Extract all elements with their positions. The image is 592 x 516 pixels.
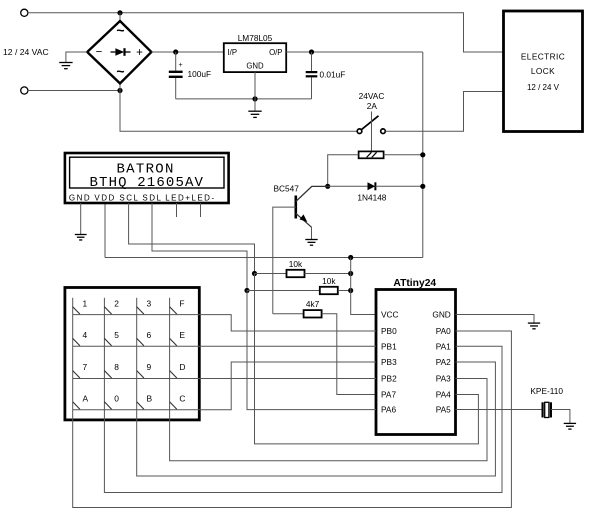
wire bridge top stub — [119, 13, 121, 21]
svg-text:PA6: PA6 — [381, 405, 396, 415]
wire keypad col1 to PA0 — [73, 298, 512, 508]
capacitor C2 0.01uF — [306, 52, 318, 99]
terminal J1 (AC input top) — [21, 9, 28, 16]
svg-text:−: − — [96, 47, 103, 59]
svg-text:BC547: BC547 — [274, 183, 300, 193]
wire SDL — [152, 203, 247, 291]
wire relay right to +V — [384, 154, 423, 156]
svg-text:LOCK: LOCK — [531, 66, 555, 76]
node relay right — [420, 152, 425, 157]
wire SCL to PA4 — [255, 274, 479, 444]
svg-text:PB2: PB2 — [381, 374, 397, 384]
wire keypad row3 to PB2 — [73, 378, 376, 380]
key E — [170, 330, 186, 346]
svg-text:12 / 24 VAC: 12 / 24 VAC — [3, 47, 49, 57]
svg-text:1: 1 — [83, 298, 88, 308]
wire R3 left — [273, 313, 304, 315]
ground (ATtiny24) — [528, 323, 540, 329]
svg-text:PA1: PA1 — [436, 341, 451, 351]
svg-text:VCC: VCC — [381, 310, 399, 320]
svg-text:LED+: LED+ — [165, 194, 191, 203]
wire R2 left — [247, 290, 320, 292]
wire base — [273, 207, 296, 314]
svg-text:PA4: PA4 — [436, 390, 451, 400]
relay coil K1 — [359, 151, 384, 158]
svg-text:1N4148: 1N4148 — [357, 193, 386, 203]
key 8 — [104, 362, 119, 378]
node AC top / bridge — [117, 10, 122, 15]
svg-text:0: 0 — [114, 393, 119, 403]
svg-text:4: 4 — [83, 330, 88, 340]
wire +V rail to VCC — [351, 258, 376, 315]
svg-text:E: E — [179, 330, 185, 340]
svg-text:KPE-110: KPE-110 — [530, 386, 563, 396]
svg-text:GND: GND — [246, 61, 264, 70]
ground (bridge) — [59, 63, 72, 69]
svg-text:SDL: SDL — [142, 194, 162, 203]
wire ground stub — [254, 99, 256, 111]
node SDL / R2 — [244, 288, 249, 293]
wire LCD GND stub — [80, 203, 82, 234]
svg-text:2A: 2A — [367, 101, 378, 111]
svg-text:PA3: PA3 — [436, 374, 451, 384]
svg-text:D: D — [179, 362, 185, 372]
electric lock — [504, 11, 583, 132]
svg-text:PB1: PB1 — [381, 341, 397, 351]
wire AC-bottom — [28, 90, 120, 92]
svg-text:2: 2 — [114, 298, 119, 308]
svg-text:I/P: I/P — [228, 48, 238, 57]
svg-text:~: ~ — [116, 63, 124, 79]
svg-text:10k: 10k — [322, 276, 336, 286]
svg-text:GND: GND — [432, 310, 450, 320]
node relay left / diode anode — [325, 184, 330, 189]
wire R2 right — [338, 290, 351, 292]
svg-text:12 / 24 V: 12 / 24 V — [527, 83, 560, 92]
ground (buzzer) — [564, 423, 576, 429]
key 0 — [104, 393, 119, 409]
svg-text:SCL: SCL — [119, 194, 139, 203]
svg-text:B: B — [147, 393, 153, 403]
svg-text:0.01uF: 0.01uF — [320, 70, 346, 80]
svg-text:PA2: PA2 — [436, 357, 451, 367]
svg-text:GND: GND — [69, 194, 91, 203]
node R2 / +V — [348, 288, 353, 293]
resistor R3 4k7 — [304, 310, 322, 317]
wire keypad col2 to PA1 — [104, 298, 502, 493]
wire R1 right — [305, 273, 351, 275]
wire switch to electric lock — [385, 92, 503, 132]
svg-text:7: 7 — [83, 362, 88, 372]
svg-text:LM78L05: LM78L05 — [238, 33, 273, 43]
key 5 — [104, 330, 119, 346]
wire buzzer to ground — [551, 410, 570, 424]
key D — [170, 362, 186, 378]
node diode cathode / +V — [420, 184, 425, 189]
bridge rectifier BR1 — [87, 21, 151, 83]
svg-text:A: A — [83, 393, 89, 403]
svg-text:3: 3 — [147, 298, 152, 308]
wire bridge right to regulator I/P — [151, 51, 223, 53]
wire R1 left — [255, 273, 287, 275]
wire ground rail — [176, 98, 312, 100]
svg-text:6: 6 — [147, 330, 152, 340]
wire +V rail to VDD — [105, 257, 423, 259]
key 1 — [73, 298, 88, 314]
wire AC-top to electric lock — [28, 13, 504, 52]
key 7 — [73, 362, 88, 378]
wire relay link — [371, 112, 373, 152]
svg-text:PA0: PA0 — [436, 326, 451, 336]
svg-text:9: 9 — [147, 362, 152, 372]
key 2 — [104, 298, 119, 314]
switch S1 contact left — [357, 129, 362, 134]
key 4 — [73, 330, 88, 346]
svg-text:PA5: PA5 — [436, 405, 451, 415]
svg-text:C: C — [179, 393, 185, 403]
wire keypad col3 to PA2 — [137, 298, 496, 476]
svg-text:BTHQ 21605AV: BTHQ 21605AV — [89, 175, 204, 191]
capacitor C1 100uF — [169, 52, 183, 99]
svg-text:O/P: O/P — [269, 48, 282, 57]
node 0.01uF top — [309, 49, 314, 54]
resistor R2 10k — [320, 287, 338, 294]
regulator U2 LM78L05 — [224, 43, 286, 72]
node SCL / R1 — [252, 271, 257, 276]
svg-text:100uF: 100uF — [188, 69, 212, 79]
terminal J2 (AC input bottom) — [21, 87, 28, 94]
buzzer BZ1 KPE-110 — [543, 402, 551, 417]
svg-text:VDD: VDD — [94, 194, 115, 203]
wire AC bottom to switch — [120, 91, 357, 132]
ground (emitter) — [305, 240, 317, 246]
svg-text:ELECTRIC: ELECTRIC — [521, 52, 565, 62]
resistor R1 10k — [287, 270, 305, 277]
svg-text:ATtiny24: ATtiny24 — [393, 278, 436, 289]
wire R3 right to PA7 — [322, 314, 376, 395]
svg-text:24VAC: 24VAC — [359, 91, 385, 101]
wire SCL — [129, 203, 255, 274]
diode D1 1N4148 — [368, 182, 376, 190]
svg-text:10k: 10k — [289, 259, 303, 269]
wire diode cathode — [375, 185, 422, 187]
node AC bottom / bridge — [117, 88, 122, 93]
LCD module BATRON BTHQ 21605AV — [65, 153, 229, 203]
node regulator GND — [252, 96, 257, 101]
svg-text:PB0: PB0 — [381, 326, 397, 336]
wire LED- stub — [200, 203, 202, 217]
switch S1 lever — [361, 116, 378, 130]
wire diode anode — [328, 185, 368, 187]
switch S1 contact right — [381, 129, 386, 134]
key F — [170, 298, 185, 314]
svg-text:8: 8 — [114, 362, 119, 372]
wire keypad row1 to PB0 — [73, 315, 376, 331]
key C — [170, 393, 186, 409]
wire PA5 to buzzer — [456, 409, 543, 411]
key 3 — [137, 298, 152, 314]
node +V rail — [348, 255, 353, 260]
key B — [137, 393, 153, 409]
svg-text:5: 5 — [114, 330, 119, 340]
svg-text:+: + — [178, 62, 182, 69]
wire regulator GND stub — [254, 72, 256, 99]
wire +V rail down — [422, 52, 424, 258]
node R1 / +V — [348, 271, 353, 276]
wire keypad row4 to PB3 — [73, 362, 376, 410]
wire GND to ground — [456, 315, 535, 323]
wire bridge left to ground — [66, 52, 87, 62]
transistor Q1 BC547 — [296, 186, 328, 227]
wire SDL to PA6 — [247, 291, 376, 410]
wire LED+ stub — [176, 203, 178, 217]
wire keypad row2 to PB1 — [73, 345, 376, 347]
ground (LCD) — [75, 235, 87, 240]
key 6 — [137, 330, 152, 346]
svg-text:PA7: PA7 — [381, 390, 396, 400]
ground (regulator) — [248, 111, 261, 117]
wire relay left to collector node — [328, 155, 359, 187]
svg-text:~: ~ — [116, 22, 124, 38]
IC U1 ATtiny24 — [376, 290, 456, 435]
svg-text:4k7: 4k7 — [306, 299, 320, 309]
wire keypad col4 to PA3 — [170, 298, 487, 461]
svg-text:PB3: PB3 — [381, 357, 397, 367]
key 9 — [137, 362, 152, 378]
wire emitter to ground — [311, 227, 313, 239]
wire regulator output rail — [286, 51, 423, 53]
key A — [73, 393, 89, 409]
wire bridge bottom stub — [119, 83, 121, 90]
wire VDD stub — [104, 203, 106, 258]
keypad KP1 — [65, 288, 199, 420]
node 100uF top — [173, 49, 178, 54]
svg-text:+: + — [136, 47, 143, 59]
svg-text:F: F — [179, 298, 184, 308]
svg-text:LED-: LED- — [191, 194, 215, 203]
